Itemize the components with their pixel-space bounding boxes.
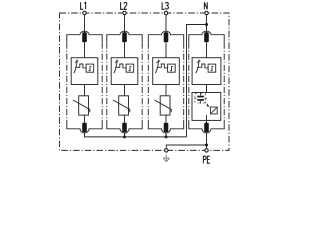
wire <box>165 115 167 123</box>
thermal disconnector L3 (top) <box>164 32 169 42</box>
monitoring device box L2 <box>111 58 138 85</box>
bottom collar L2 <box>107 120 142 133</box>
top collar N <box>189 31 224 42</box>
thermal disconnector L1 (top) <box>82 32 87 42</box>
module L2 outline sides (dash-dot) <box>107 43 142 120</box>
varistor L1 <box>73 96 90 115</box>
terminal L2 <box>123 11 126 14</box>
sparkover arrow <box>205 102 210 107</box>
thermal disconnector N (top) <box>204 32 209 42</box>
terminal L3 <box>164 11 167 14</box>
PE link wire <box>166 145 206 149</box>
wire L1 terminal down <box>84 15 86 33</box>
isolating spark gap element <box>211 107 218 114</box>
module N outline sides (dash-dot) <box>189 43 224 120</box>
junction dot N feed <box>205 23 208 26</box>
module L3 outline sides (dash-dot) <box>148 43 183 120</box>
bottom collar N <box>189 120 224 133</box>
top collar L3 <box>148 31 183 42</box>
monitoring device box N <box>192 58 221 85</box>
wire L3 to residual-current bus <box>165 133 167 137</box>
terminal L1 <box>83 11 86 14</box>
wire <box>165 85 167 96</box>
monitoring device box L3 <box>153 58 180 85</box>
varistor L3 <box>154 96 171 115</box>
wire <box>206 85 208 93</box>
wire L2 terminal down <box>124 15 126 33</box>
wire <box>206 120 208 123</box>
switch icon L3 <box>155 60 175 74</box>
module L1 outline sides (dash-dot) <box>67 43 102 120</box>
wire <box>124 115 126 123</box>
N-PE spark gap box <box>192 93 221 121</box>
switch icon L2 <box>114 60 134 74</box>
thermal disconnector N (bottom) <box>204 123 209 132</box>
wire N terminal down <box>206 15 208 33</box>
thermal disconnector L1 (bottom) <box>82 123 87 132</box>
label N <box>204 2 207 9</box>
terminal N <box>205 11 208 14</box>
switch icon L1 <box>74 60 94 74</box>
wire <box>124 42 126 58</box>
label PE <box>203 156 206 163</box>
PE terminal <box>205 149 208 152</box>
spark gap symbol <box>194 93 207 104</box>
varistor L2 <box>113 96 130 115</box>
bypass wire N to phase bus <box>187 25 207 137</box>
thermal disconnector L3 (bottom) <box>164 123 169 132</box>
wire <box>124 85 126 96</box>
wire <box>84 42 86 58</box>
wire N module to PE terminal <box>206 133 208 148</box>
label L3 <box>162 2 165 9</box>
wire L2 to residual-current bus <box>124 133 126 137</box>
wire <box>84 85 86 96</box>
bottom collar L1 <box>67 120 102 133</box>
label L1 <box>81 2 84 9</box>
top collar L2 <box>107 31 142 42</box>
bottom collar L3 <box>148 120 183 133</box>
enclosure border (dash-dot) <box>60 13 230 150</box>
junction dot PE <box>205 144 208 147</box>
top collar L1 <box>67 31 102 42</box>
residual-current bus (phases to N) <box>85 133 187 137</box>
wire L3 terminal down <box>165 15 167 33</box>
junction dot bus x L3 <box>165 135 168 138</box>
earth symbol <box>163 155 170 162</box>
junction dot bus x L2 <box>123 135 126 138</box>
thermal disconnector L2 (top) <box>122 32 127 42</box>
thermal disconnector L2 (bottom) <box>122 123 127 132</box>
wire <box>206 42 208 58</box>
switch icon N <box>196 60 216 74</box>
wire <box>84 115 86 123</box>
label L2 <box>121 2 124 9</box>
wire <box>165 42 167 58</box>
earth terminal <box>165 149 168 152</box>
wire L1 to residual-current bus <box>84 133 86 137</box>
monitoring device box L1 <box>71 58 98 85</box>
wire <box>206 115 208 123</box>
